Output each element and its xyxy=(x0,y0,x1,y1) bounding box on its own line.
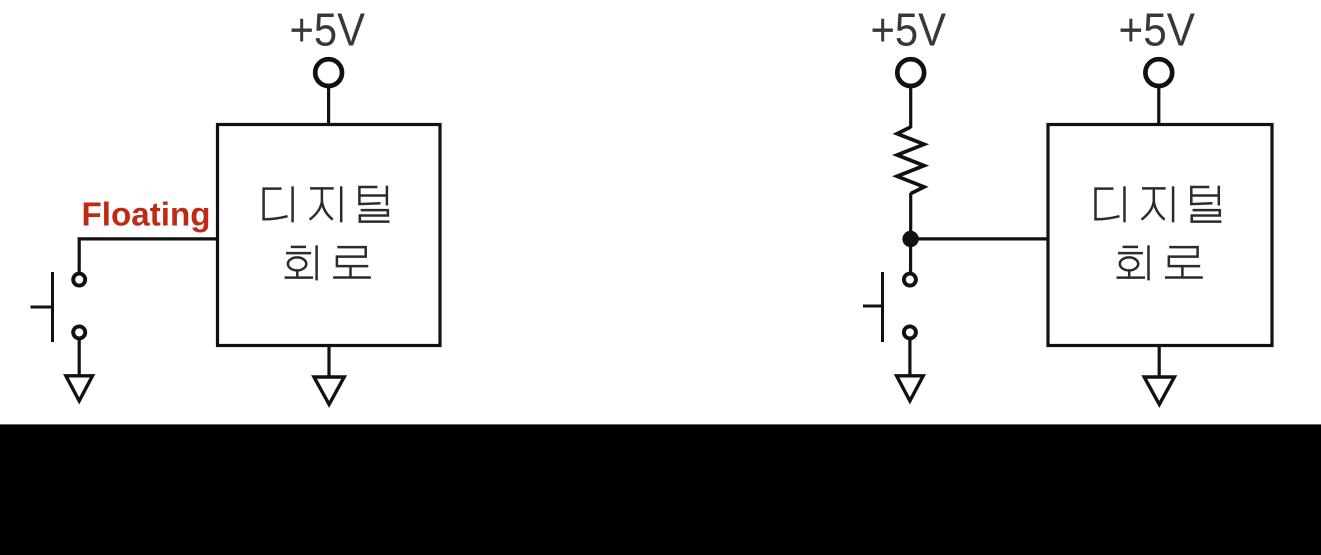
wire: resistor to junction node xyxy=(909,193,912,239)
+5V supply terminal circle (right box) xyxy=(1145,59,1172,86)
svg-text:+5V: +5V xyxy=(871,3,947,55)
svg-text:+5V: +5V xyxy=(1119,3,1196,55)
switch SW1 actuator stub xyxy=(31,306,53,309)
digital circuit box U2 (right) xyxy=(1048,125,1272,346)
wire: junction to right box input xyxy=(911,237,1048,240)
switch SW1 bottom contact circle xyxy=(73,326,85,338)
digital circuit box U1 (left) xyxy=(218,125,441,346)
ground symbol (right switch) xyxy=(897,376,924,401)
wire: right supply to box top xyxy=(1157,88,1160,127)
wire: right box bottom to ground xyxy=(1158,346,1161,377)
wire: left switch node to box input xyxy=(79,239,217,273)
wire: SW1 to ground xyxy=(78,339,81,376)
ground symbol (right box) xyxy=(1144,377,1174,404)
label: digital circuit text (left box) xyxy=(264,186,390,281)
svg-text:+5V: +5V xyxy=(290,3,366,55)
junction node dot xyxy=(902,231,918,247)
label: digital circuit text (right box) xyxy=(1096,186,1222,281)
switch SW2 actuator bar xyxy=(881,272,884,342)
+5V supply terminal circle (pull-up) xyxy=(897,59,924,86)
switch SW2 actuator stub xyxy=(863,305,883,308)
black letterbox bar xyxy=(0,424,1321,555)
switch SW1 top contact circle xyxy=(73,274,85,286)
svg-text:Floating: Floating xyxy=(82,196,211,233)
switch SW2 top contact circle xyxy=(904,274,916,286)
ground symbol (left switch) xyxy=(66,376,93,401)
wire: SW2 to ground xyxy=(908,339,911,376)
wire: pull-up supply to resistor xyxy=(909,88,912,129)
wire: junction down to SW2 xyxy=(909,239,912,273)
ground symbol (left box) xyxy=(314,377,344,404)
wire: left supply to box top xyxy=(327,88,330,127)
switch SW2 bottom contact circle xyxy=(904,326,916,338)
+5V supply terminal circle (left) xyxy=(315,59,342,86)
switch SW1 actuator bar xyxy=(51,272,54,342)
resistor R1 (pull-up) xyxy=(897,127,924,194)
wire: left box bottom to ground xyxy=(327,346,330,377)
